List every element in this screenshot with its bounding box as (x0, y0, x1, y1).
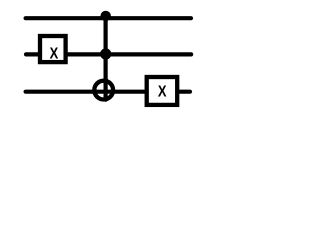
target plus: horizontal bar (93, 90, 115, 94)
X gate box on q2 (147, 77, 178, 105)
control dot on q1 (100, 48, 111, 59)
X gate box on q1 (40, 36, 66, 62)
vertical control line (103, 16, 107, 100)
wire q1 (middle) (26, 52, 191, 56)
wire q2 (bottom) (26, 90, 190, 94)
wire q0 (top) (26, 16, 191, 20)
CNOT target circle (XOR) on q2 (94, 81, 113, 100)
control dot on q0 (101, 11, 111, 21)
target plus: vertical bar (103, 79, 107, 100)
svg-text:X: X (158, 84, 167, 101)
svg-text:X: X (50, 45, 59, 62)
